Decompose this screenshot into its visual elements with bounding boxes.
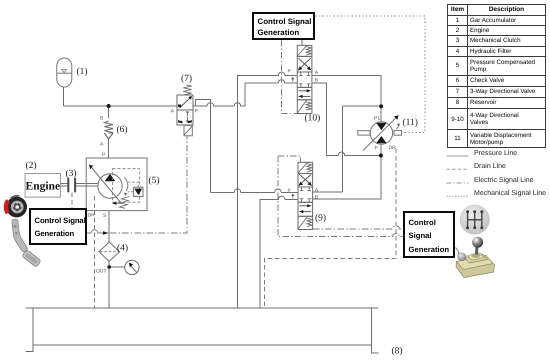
wire: motor bottom port stub	[380, 144, 382, 156]
brake pedal assembly: pedal arm and pad	[12, 219, 41, 267]
wire: valve10 solenoid lead from control box	[301, 40, 303, 45]
svg-text:(1): (1)	[77, 67, 88, 77]
wire: gauge branch	[109, 266, 124, 268]
node: junction filter/gauge	[107, 265, 111, 269]
valve7 top position arrow	[178, 96, 192, 108]
node: junction motor bottom	[379, 154, 383, 158]
svg-text:OUT: OUT	[96, 269, 107, 275]
valve7 spring	[183, 85, 191, 95]
svg-text:(6): (6)	[117, 125, 128, 135]
svg-text:P1: P1	[374, 116, 380, 122]
mechanical clutch (3)	[68, 178, 75, 193]
wire: valve9 P drop lower part	[209, 189, 211, 192]
wire: valve10 P line going left and down to reservoir, hop over crossings drawn on crossing lines	[238, 72, 298, 308]
svg-text:P: P	[287, 188, 291, 194]
electric signal hop over drain line	[91, 230, 98, 233]
valve10 bottom solenoid internals	[297, 100, 311, 113]
legend sample line: pressure	[447, 155, 469, 157]
node: junction motor P1	[379, 104, 383, 108]
wire: motor P1 header from valve9 A riser	[343, 105, 380, 107]
control box left	[29, 208, 87, 245]
wire: motor P1 port stub	[380, 106, 382, 122]
3-way directional valve (7) body	[177, 95, 193, 125]
svg-text:Engine: Engine	[26, 181, 61, 193]
accumulator (1)	[57, 58, 72, 87]
pressure gauge	[125, 260, 139, 274]
svg-text:DR: DR	[389, 145, 397, 151]
drain line: pump DR to reservoir (dashed)	[93, 196, 95, 308]
reservoir (8)	[25, 308, 378, 353]
svg-text:(3): (3)	[66, 169, 77, 179]
valve7 blocked port marks	[178, 112, 192, 123]
control box top	[252, 12, 315, 40]
svg-text:(7): (7)	[181, 74, 192, 84]
port letter labels	[88, 69, 397, 275]
4-way directional valve (9)	[298, 162, 313, 229]
drain line: motor DR down, left, to reservoir (dashed)	[265, 149, 397, 309]
variable displacement motor/pump (11)	[358, 115, 402, 150]
valve9 centre position blocked ports	[300, 187, 311, 202]
svg-text:(5): (5)	[149, 176, 160, 186]
electric signal: drop to right control box, hop at x=396 (dash-dot)	[278, 156, 403, 237]
wire: valve10 A line right and down to motor P1 junction	[312, 75, 381, 104]
gear shift pattern ball	[460, 205, 489, 234]
wire: valve9 T line to tank riser, hop at 278	[260, 196, 298, 308]
svg-text:(2): (2)	[26, 161, 37, 171]
check valve (6)	[104, 121, 113, 139]
wire: clutch to pump shaft double line	[76, 184, 98, 187]
wire: engine shaft to clutch	[61, 184, 68, 187]
pressure compensated pump (5)	[86, 158, 147, 211]
tank port arrow valve9	[291, 193, 294, 198]
wire: valve9 P line, hops at 237.5 and 278	[210, 189, 298, 192]
svg-text:S: S	[103, 213, 107, 219]
svg-text:(4): (4)	[117, 244, 128, 254]
legend table	[447, 4, 546, 148]
legend sample line: mechanical	[447, 195, 469, 197]
tank port arrow valve10	[291, 77, 294, 82]
signal direction arrow on electric line	[103, 231, 109, 235]
electric signal: valve9 lower solenoid to right control box, hop at x=396 (dash-dot)	[313, 226, 403, 229]
wire: filter to reservoir with gauge junction	[108, 261, 110, 308]
brake pedal assembly: wheel	[6, 196, 27, 218]
wire: pump S port down to filter	[108, 211, 110, 242]
svg-text:(9): (9)	[315, 214, 326, 224]
valve10 parallel arrows	[298, 89, 311, 98]
wire: riser top to valve10 T port, hop at x=281.5	[245, 80, 297, 83]
svg-text:P: P	[375, 146, 379, 152]
4-way directional valve (10)	[297, 45, 312, 113]
svg-text:B: B	[100, 116, 104, 122]
gear shifter base	[456, 237, 495, 278]
wire: junction to check valve top	[108, 106, 110, 118]
svg-text:(10): (10)	[305, 114, 321, 124]
hydraulic filter (4)	[99, 242, 120, 261]
valve10 crossed arrows	[298, 58, 311, 70]
line-type legend labels	[474, 150, 517, 157]
legend sample line: electric	[447, 182, 469, 184]
svg-text:B: B	[315, 194, 319, 200]
svg-text:P: P	[195, 109, 199, 115]
wire: valve9 A stub	[313, 191, 343, 193]
item number labels	[26, 67, 418, 357]
wire: check valve bottom to pump P	[108, 139, 110, 158]
valve9 parallel arrows	[299, 204, 312, 213]
valve9 crossed arrows	[299, 174, 312, 185]
wire: motor bottom junction down and left to valve9 B	[313, 156, 381, 199]
wire: valve9 A riser crossing motor B line with pass	[342, 106, 344, 192]
svg-text:A: A	[171, 109, 175, 115]
valve9 bottom solenoid internals	[298, 217, 312, 229]
mechanical signal curve to shifter	[456, 248, 464, 255]
svg-text:(8): (8)	[392, 347, 403, 357]
valve9 top solenoid internals	[298, 163, 312, 173]
valve10 centre position blocked ports	[299, 72, 310, 87]
svg-text:P: P	[102, 152, 106, 158]
electric signal: top control box to valve10 lower solenoid (dash-dot)	[282, 40, 298, 114]
drain line: clutch to left control box (dashed)	[71, 193, 73, 209]
control box right	[403, 211, 455, 258]
svg-text:A: A	[100, 142, 104, 148]
wire: valve10 B line right, down, to motor bottom junction, hop at x=341.5	[312, 83, 379, 156]
engine box (2)	[25, 174, 60, 198]
electric signal: left control box to valve7 solenoid (dash-dot)	[87, 136, 187, 233]
wire: accumulator drop line	[63, 87, 65, 106]
wire: main pressure line valve7 P to riser, hops at x=210.3 and x=237.5	[193, 83, 245, 106]
wire: valve7 P tee up-over to valve9 P drop	[196, 99, 211, 189]
valve7 solenoid box	[184, 125, 192, 135]
valve10 top solenoid internals	[297, 46, 311, 56]
legend sample line: drain	[447, 168, 469, 170]
electric signal: top control box to motor displacement control (dotted)	[316, 16, 426, 132]
wire: main pressure line accumulator to valve7 A	[64, 105, 177, 107]
svg-text:P: P	[287, 69, 291, 75]
svg-text:(11): (11)	[403, 118, 418, 128]
node: junction accumulator/check valve	[107, 104, 111, 108]
svg-text:DR: DR	[88, 213, 96, 219]
electric signal: branch to valve9 upper solenoid (dash-dot)	[278, 156, 301, 163]
